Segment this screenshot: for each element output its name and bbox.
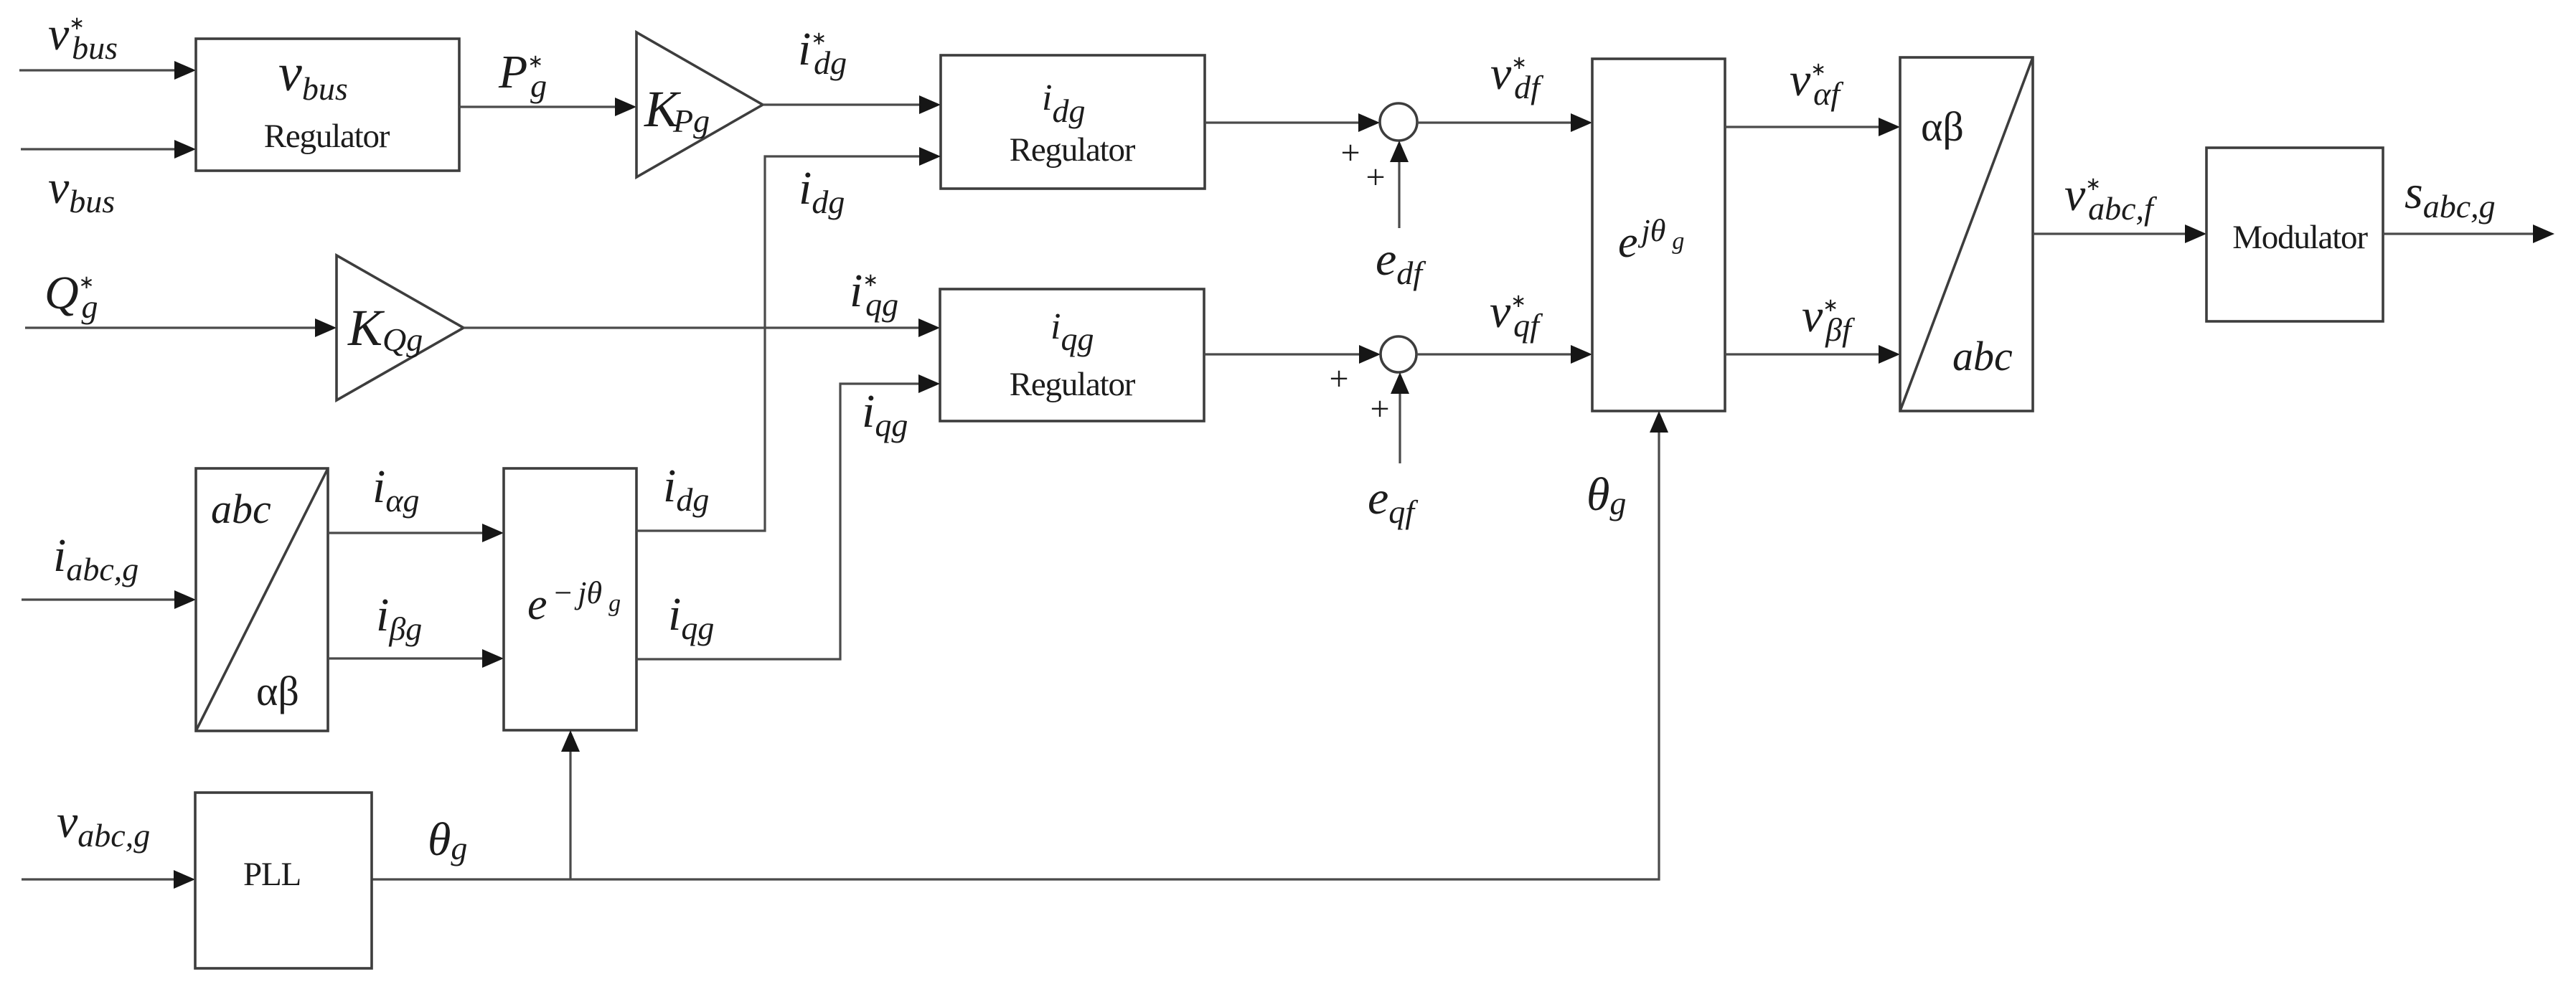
node i_qg feedback label low [668,588,714,646]
wire i_dg feedback [636,147,941,531]
wire v*_af [1725,118,1900,136]
node v*_bus label [48,8,118,66]
wire v*_bus input [19,61,196,80]
wire i_qg regulator output [1204,345,1381,364]
node theta_g label left [428,813,467,866]
block e^jtheta_g rotation [1592,59,1725,411]
node i*_dg label [798,23,847,81]
wire v*_qf [1416,345,1592,364]
svg-text:+: + [1340,134,1360,172]
svg-text:Regulator: Regulator [1010,131,1136,169]
wire Q*_g input [25,318,337,337]
node plus sign S1 a [1340,134,1360,172]
node Q*_g label [44,267,98,325]
svg-text:abc: abc [211,486,271,532]
wire i_dg regulator output [1205,113,1380,132]
wire i_abcg input [22,590,196,609]
node v*_af label [1790,54,1844,112]
node v*_bf label [1802,290,1856,348]
wire e_qf input [1391,372,1409,463]
node P*_g label [498,46,547,104]
node plus sign S1 b [1365,159,1385,197]
svg-text:PLL: PLL [243,856,301,893]
node i_alphag label [372,460,420,519]
block alphabeta to abc transform [1900,57,2033,411]
node v*_df label [1490,47,1544,105]
wire i*_dg [763,95,941,114]
node v*_qf label [1490,285,1543,344]
block e^-jtheta_g rotation [504,468,636,730]
summer S1 [1380,103,1417,141]
wire e_df input [1390,141,1409,228]
svg-text:αβ: αβ [256,668,299,714]
node i_dg feedback label high [799,162,845,220]
wire i_alphag [328,524,504,542]
svg-text:Q∗g: Q∗g [44,267,98,325]
node v_bus label [48,161,115,219]
node plus sign S2 a [1329,360,1348,398]
svg-text:+: + [1370,390,1389,428]
wire v*_abcf [2033,225,2206,243]
node v_abcg label [57,795,150,854]
svg-text:Modulator: Modulator [2232,219,2368,256]
svg-text:+: + [1329,360,1348,398]
svg-text:+: + [1365,159,1385,197]
wire v*_df [1417,113,1592,132]
block PLL [195,793,372,968]
svg-text:P∗g: P∗g [498,46,547,104]
svg-text:Regulator: Regulator [264,118,390,155]
summer S2 [1381,336,1416,372]
node v*_abcf label [2064,169,2158,227]
wire v*_bf [1725,345,1900,364]
node i_betag label [376,589,422,647]
svg-text:Regulator: Regulator [1010,366,1136,403]
node theta_g label right [1587,468,1626,521]
gain K_Pg [636,32,763,177]
node e_qf label [1368,472,1419,530]
wire i_qg feedback [636,374,940,659]
node s_abcg label [2405,166,2496,225]
wire P*_g [459,98,636,116]
block Modulator [2206,148,2383,321]
block i_dg Regulator [941,55,1205,189]
svg-text:abc: abc [1952,333,2013,379]
node i_abcg label [53,529,138,587]
block i_qg Regulator [940,289,1204,421]
node i*_qg label [850,265,898,323]
node i_dg feedback label low [663,460,709,518]
node i_qg feedback label high [862,385,908,443]
wire i*_qg [464,318,940,337]
node e_df label [1376,233,1426,291]
svg-text:αβ: αβ [1921,103,1964,150]
wire s_abcg output [2383,225,2554,243]
block v_bus Regulator [196,39,459,171]
wire i_betag [328,649,504,668]
gain K_Qg [337,255,464,400]
block abc to alphabeta transform [196,468,328,731]
wire v_bus input [21,140,196,159]
wire theta_g branch into e^-jtheta_g [561,730,580,879]
node plus sign S2 b [1370,390,1389,428]
wire theta_g into e^jtheta_g [372,411,1668,879]
wire v_abcg input [22,870,195,889]
